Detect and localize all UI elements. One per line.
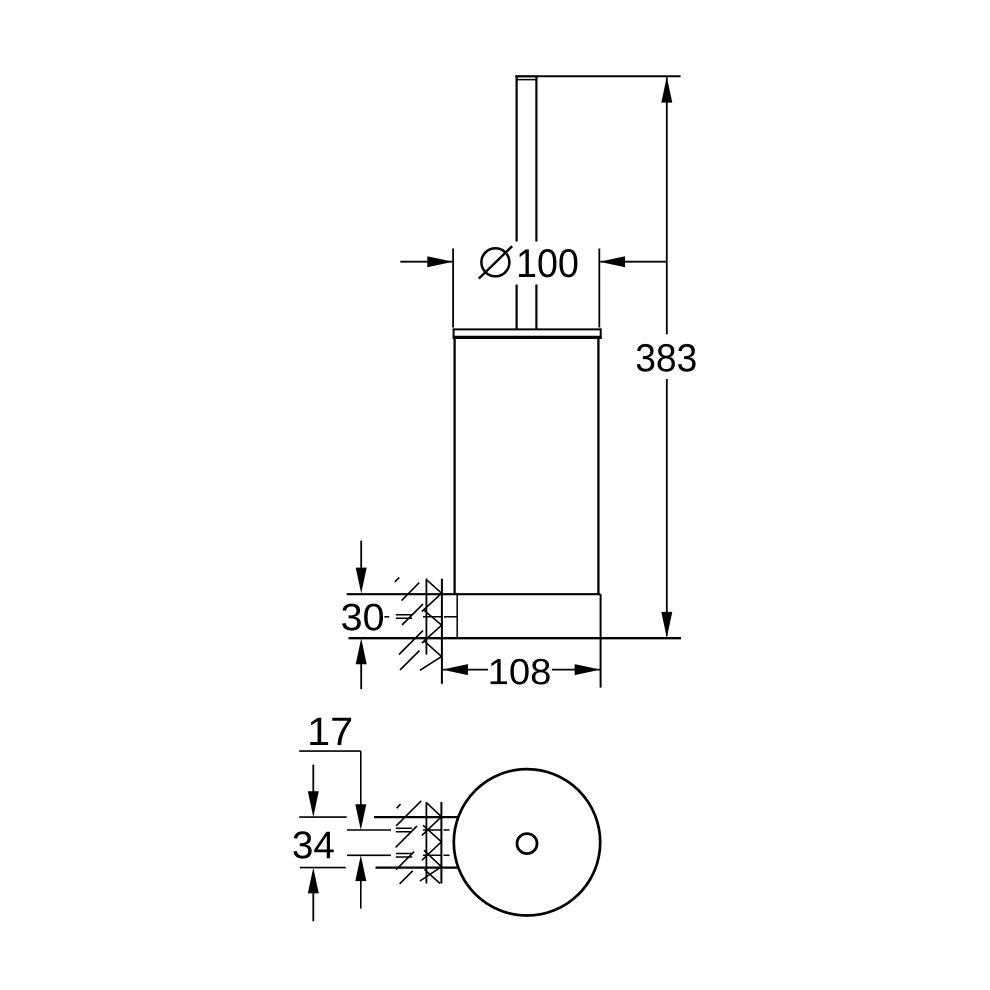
- dimension 34 stems and arrows: [312, 765, 314, 922]
- brush handle right line: [535, 76, 537, 328]
- dimension 108 leaders and arrows: [442, 669, 600, 671]
- wall anchor chevrons (bottom view): [420, 803, 442, 884]
- dimension line 383: [666, 78, 668, 637]
- base bottom line with 383-extension: [349, 637, 682, 639]
- container body right wall: [597, 339, 599, 594]
- dimension text 30: [342, 604, 383, 631]
- dimension text 34: [293, 831, 333, 858]
- dimension Ø100 leaders and arrows: [400, 261, 667, 263]
- container lid: [453, 328, 602, 339]
- dimension 30 stems and arrows: [360, 541, 362, 690]
- bottom view center hole circle: [517, 834, 537, 854]
- hidden screw (front view): [384, 615, 456, 619]
- wall hatching (bottom view): [396, 801, 422, 884]
- base right edge and 108 extension: [600, 594, 602, 687]
- hidden screws (bottom view): [396, 828, 450, 857]
- screw extension lines (bottom view): [347, 830, 391, 855]
- base top line with 30-extension: [347, 593, 601, 595]
- plate extension lines (bottom view): [299, 817, 347, 868]
- bottom view outer circle: [454, 769, 600, 915]
- base left edge / wall surface line: [441, 579, 443, 684]
- dimension text 100: [519, 249, 577, 277]
- wall inner line (front view): [425, 579, 427, 655]
- base inner step line: [456, 594, 458, 638]
- dimension text 108: [491, 659, 550, 685]
- wall anchor chevrons (front view): [420, 579, 442, 670]
- mounting plate top edge (bottom view): [374, 817, 458, 868]
- dimension Ø100 extension lines: [453, 249, 599, 328]
- wall hatching (front view): [395, 577, 423, 670]
- top reference line: [515, 75, 680, 77]
- brush handle left line: [515, 76, 517, 328]
- wall lines (bottom view): [425, 802, 427, 884]
- dimension text 383: [637, 344, 696, 372]
- dimension 17 leader: [299, 751, 361, 909]
- brush handle cap: [515, 76, 537, 79]
- container body left wall: [453, 339, 455, 594]
- dimension text 17: [310, 718, 351, 745]
- dimension symbol Ø (diameter): [481, 248, 509, 276]
